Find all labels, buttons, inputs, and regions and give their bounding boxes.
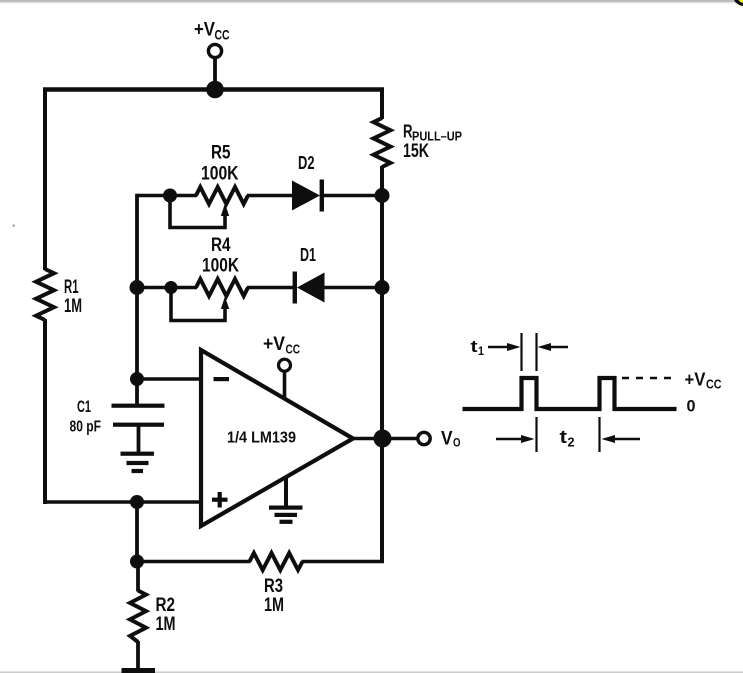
svg-text:R3: R3 — [264, 576, 283, 597]
t1 dimension lines — [522, 333, 537, 371]
svg-text:R2: R2 — [156, 595, 176, 616]
svg-text:100K: 100K — [202, 256, 239, 277]
wire +VCC stem — [213, 58, 217, 90]
node non-inverting input junction — [130, 495, 144, 509]
R5 wiper arrow — [221, 204, 229, 217]
svg-text:2: 2 — [568, 435, 575, 450]
scan edge top — [0, 0, 743, 3]
svg-text:t: t — [471, 337, 478, 356]
t1 arrow right — [538, 343, 569, 351]
speck artifact — [13, 225, 15, 227]
node output junction — [374, 430, 392, 448]
svg-text:t: t — [560, 427, 568, 447]
diode D2 — [292, 153, 324, 212]
node D1 junction — [375, 280, 390, 295]
svg-text:V: V — [441, 429, 453, 450]
label t2 — [560, 427, 575, 450]
node D2 junction — [375, 188, 390, 203]
wire inverting input row — [137, 377, 202, 381]
t2 arrow left — [496, 435, 535, 443]
wire R2 stub — [136, 562, 140, 592]
wire R3 row right — [302, 560, 385, 564]
svg-text:15K: 15K — [403, 141, 429, 162]
resistor RPULL-UP 15K — [374, 118, 463, 167]
resistor R3 1M — [250, 553, 303, 616]
svg-text:1M: 1M — [264, 595, 284, 616]
wire right vertical (Rpullup to R3 corner) — [380, 166, 384, 562]
svg-text:CC: CC — [706, 378, 722, 392]
wire left vertical lower segment — [43, 319, 47, 504]
svg-text:0: 0 — [687, 397, 696, 416]
t1 arrow left — [488, 343, 521, 351]
ground (R2) — [122, 668, 156, 673]
svg-text:80 pF: 80 pF — [70, 419, 102, 436]
node R4 left junction — [130, 280, 145, 295]
yellow corner icon fragment — [734, 0, 743, 6]
wire right vertical top stub — [380, 88, 384, 120]
diode D1 — [293, 245, 325, 304]
ground (op-amp) — [269, 477, 303, 524]
op-amp U1 1/4 LM139 — [201, 350, 353, 526]
svg-text:100K: 100K — [201, 164, 239, 185]
svg-text:1: 1 — [478, 344, 484, 358]
scan edge bottom — [0, 671, 743, 673]
svg-text:O: O — [453, 436, 461, 450]
waveform trace — [463, 378, 677, 409]
svg-text:+V: +V — [685, 370, 706, 390]
output terminal VO — [418, 429, 461, 450]
power terminal +VCC (op-amp) — [263, 334, 300, 399]
svg-text:D2: D2 — [298, 153, 315, 173]
wire R2 to ground — [136, 641, 140, 670]
wire R3 row left — [137, 560, 251, 564]
wire R5 wiper loop — [170, 200, 225, 228]
wire R4 to D1 — [247, 286, 295, 290]
waveform label +VCC — [685, 370, 722, 392]
label t1 — [471, 337, 485, 358]
wire non-inverting row — [43, 500, 202, 504]
R4 wiper arrow — [221, 297, 229, 310]
wire D2 to right rail — [323, 194, 382, 198]
junction top VCC node — [206, 81, 224, 99]
wire mid vertical (plus node to R3 row) — [135, 502, 139, 562]
resistor R5 100K (potentiometer) — [196, 143, 248, 205]
node R5 left junction — [163, 189, 177, 203]
ground (C1) — [121, 452, 155, 474]
svg-text:+V: +V — [194, 20, 215, 41]
wire mid vertical (R5 corner down to C1) — [135, 194, 139, 405]
node inverting input junction — [130, 372, 144, 386]
capacitor C1 80 pF — [70, 397, 165, 454]
wire D1 to right rail — [324, 286, 382, 290]
svg-text:+V: +V — [263, 334, 285, 355]
svg-text:R4: R4 — [211, 235, 231, 256]
resistor R1 — [36, 269, 82, 320]
node R4 wiper junction — [165, 281, 178, 294]
wire op-amp output — [351, 437, 382, 441]
svg-text:1/4 LM139: 1/4 LM139 — [227, 430, 296, 447]
wire R4 wiper loop — [171, 293, 225, 321]
svg-text:CC: CC — [286, 343, 301, 357]
power terminal +VCC (top) — [194, 20, 230, 58]
wire top horizontal — [43, 87, 384, 91]
svg-text:D1: D1 — [300, 245, 316, 265]
resistor R2 1M — [130, 591, 176, 643]
wire R5 to D2 — [247, 194, 293, 198]
svg-text:R1: R1 — [64, 277, 79, 298]
svg-text:1M: 1M — [156, 614, 176, 635]
svg-text:1M: 1M — [64, 296, 82, 317]
resistor R4 100K (potentiometer) — [196, 235, 248, 296]
t2 dimension lines — [537, 417, 600, 452]
svg-text:R5: R5 — [211, 143, 231, 164]
node R2/R3 junction — [130, 555, 144, 569]
t2 arrow right — [602, 435, 641, 443]
svg-text:CC: CC — [215, 28, 230, 43]
wire R4 row — [137, 286, 197, 290]
wire R5 row — [137, 194, 197, 198]
svg-text:C1: C1 — [77, 397, 91, 416]
wire output to terminal — [382, 437, 418, 441]
waveform VCC dashed level — [622, 377, 674, 380]
wire left vertical upper segment — [43, 88, 47, 271]
